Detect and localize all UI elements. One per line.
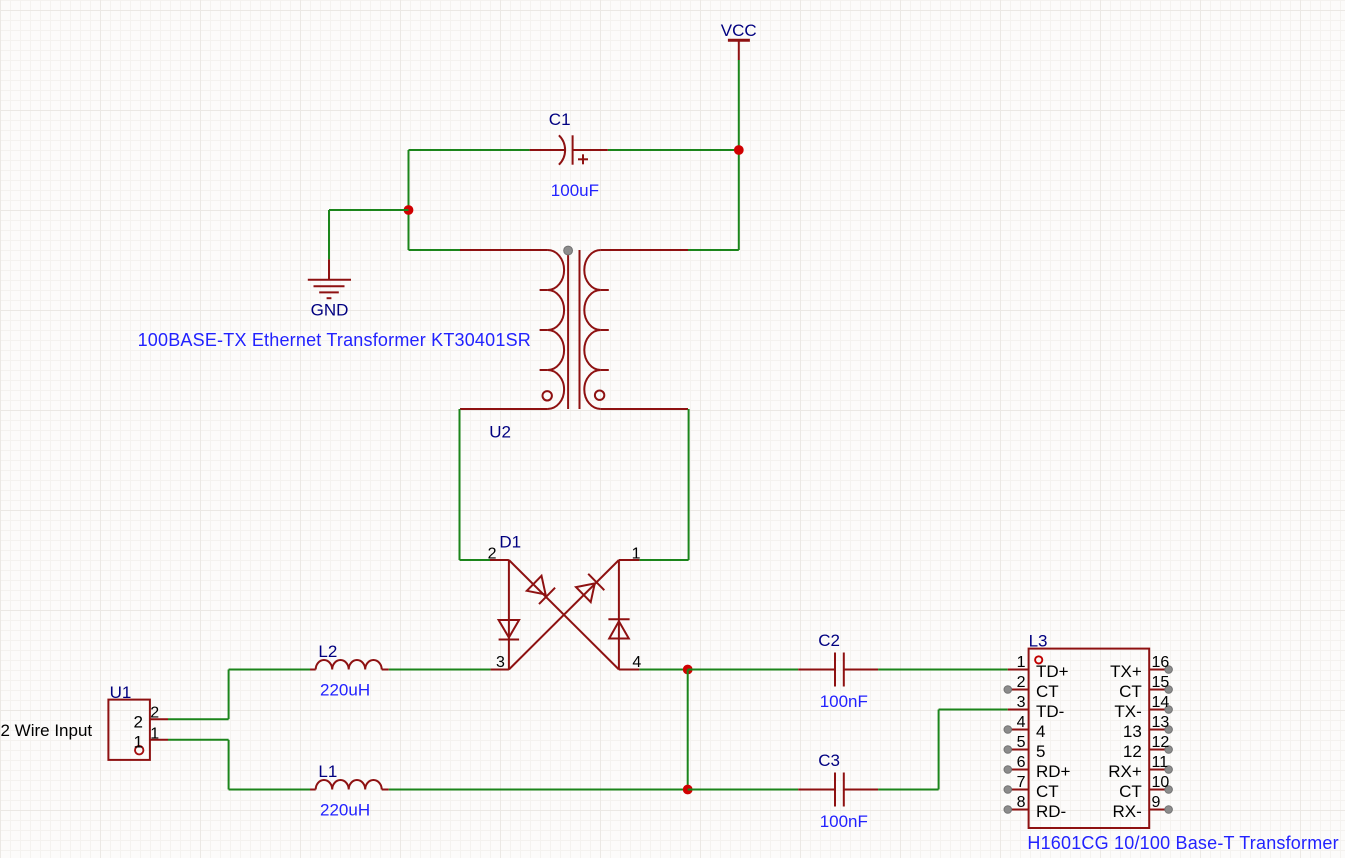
- svg-text:CT: CT: [1036, 682, 1059, 701]
- wire junction to C3: [688, 789, 799, 791]
- L3 pin 8 lead: [1008, 809, 1029, 811]
- capacitor C2: [798, 653, 878, 687]
- svg-text:12: 12: [1123, 742, 1142, 761]
- svg-text:12: 12: [1152, 734, 1170, 751]
- svg-text:GND: GND: [311, 301, 349, 320]
- svg-text:2: 2: [150, 705, 159, 722]
- wire vertical jog up: [938, 710, 940, 790]
- wire U1 pin1 vertical down: [228, 740, 230, 790]
- svg-text:10: 10: [1152, 774, 1170, 791]
- svg-text:5: 5: [1017, 734, 1026, 751]
- svg-text:4: 4: [1036, 722, 1045, 741]
- wire transformer top-left: [409, 249, 461, 251]
- svg-text:8: 8: [1017, 794, 1026, 811]
- svg-text:L2: L2: [318, 642, 337, 661]
- svg-text:CT: CT: [1119, 782, 1142, 801]
- wire U2 box left vertical: [459, 409, 461, 560]
- svg-text:16: 16: [1152, 654, 1170, 671]
- svg-text:6: 6: [1017, 754, 1026, 771]
- wire D1 pin4 to junction: [639, 669, 687, 671]
- wire VCC vertical down to transformer: [738, 60, 740, 250]
- inductor L2: [310, 660, 389, 670]
- svg-text:H1601CG 10/100 Base-T Transfor: H1601CG 10/100 Base-T Transformer: [1027, 833, 1338, 853]
- node junction row B: [683, 785, 693, 795]
- wire U1 pin1 horizontal: [168, 739, 229, 741]
- L3 pin 12 lead: [1149, 749, 1168, 751]
- svg-text:1: 1: [632, 545, 641, 562]
- svg-text:7: 7: [1017, 774, 1026, 791]
- wire transformer top-right: [688, 249, 739, 251]
- svg-text:220uH: 220uH: [320, 801, 370, 820]
- svg-text:100uF: 100uF: [551, 181, 599, 200]
- wire GND vertical: [328, 210, 330, 259]
- svg-text:5: 5: [1036, 742, 1045, 761]
- svg-text:4: 4: [632, 654, 641, 671]
- svg-text:1: 1: [134, 733, 143, 752]
- svg-text:13: 13: [1123, 722, 1142, 741]
- svg-text:100nF: 100nF: [820, 812, 868, 831]
- svg-text:100BASE-TX Ethernet Transforme: 100BASE-TX Ethernet Transformer KT30401S…: [138, 330, 531, 350]
- svg-text:VCC: VCC: [721, 21, 757, 40]
- L3 pin 16 lead: [1149, 669, 1168, 671]
- L3 pin 11 lead: [1149, 769, 1168, 771]
- svg-text:C3: C3: [818, 751, 840, 770]
- svg-text:TX-: TX-: [1114, 702, 1141, 721]
- L3 pin 13 lead: [1149, 729, 1168, 731]
- L3 pin 1 lead: [1008, 669, 1029, 671]
- wire C1 top horizontal left segment: [409, 149, 530, 151]
- svg-text:CT: CT: [1119, 682, 1142, 701]
- wire left vertical from C1 row to transformer row: [408, 150, 410, 250]
- wire U1 pin2 horizontal: [168, 718, 229, 720]
- svg-text:3: 3: [1017, 694, 1026, 711]
- svg-text:D1: D1: [499, 532, 521, 551]
- node junction row A: [683, 665, 693, 675]
- svg-text:100nF: 100nF: [820, 692, 868, 711]
- L3 pin 2 lead: [1008, 689, 1029, 691]
- svg-text:U2: U2: [489, 423, 511, 442]
- transformer U2: [460, 250, 688, 409]
- capacitor C3: [798, 773, 878, 807]
- svg-text:13: 13: [1152, 714, 1170, 731]
- L3 pin 7 lead: [1008, 789, 1029, 791]
- ground: [308, 259, 351, 319]
- svg-text:9: 9: [1152, 794, 1161, 811]
- wire U2 box right vertical: [688, 409, 690, 560]
- wire GND horizontal: [329, 209, 409, 211]
- wire U1 pin2 vertical up: [228, 670, 230, 720]
- L3 pin 14 lead: [1149, 709, 1168, 711]
- svg-text:TD+: TD+: [1036, 662, 1069, 681]
- svg-text:L3: L3: [1029, 631, 1048, 650]
- power flag VCC: [721, 21, 757, 60]
- pin dot unconnected center tap: [564, 246, 573, 255]
- wire C1 right to VCC junction: [608, 149, 739, 151]
- wire junction to C2: [688, 669, 799, 671]
- IC L3: [1029, 649, 1150, 828]
- wire U2 box bottom-right horizontal: [639, 559, 688, 561]
- wire row B to L1: [229, 789, 310, 791]
- svg-text:C1: C1: [549, 110, 571, 129]
- svg-text:RX+: RX+: [1108, 762, 1142, 781]
- wire to L3 pin3: [939, 709, 1008, 711]
- svg-text:CT: CT: [1036, 782, 1059, 801]
- svg-text:15: 15: [1152, 674, 1170, 691]
- svg-text:220uH: 220uH: [320, 681, 370, 700]
- svg-text:L1: L1: [318, 762, 337, 781]
- svg-text:C2: C2: [818, 631, 840, 650]
- node junction GND tee: [404, 205, 414, 215]
- L3 pin 4 lead: [1008, 729, 1029, 731]
- L3 pin 6 lead: [1008, 769, 1029, 771]
- wire row A to L2: [229, 669, 310, 671]
- svg-text:14: 14: [1152, 694, 1170, 711]
- svg-text:2: 2: [1017, 674, 1026, 691]
- L3 pin 10 lead: [1149, 789, 1168, 791]
- inductor L1: [310, 780, 389, 790]
- capacitor C1: [530, 135, 608, 164]
- svg-text:3: 3: [496, 654, 505, 671]
- svg-text:RD+: RD+: [1036, 762, 1071, 781]
- L3 pin 9 lead: [1149, 809, 1168, 811]
- svg-text:4: 4: [1017, 714, 1026, 731]
- diode bridge D1: [490, 560, 639, 670]
- wire L1 to junction row B: [389, 789, 688, 791]
- connector U1: [108, 700, 168, 760]
- wire U2 box bottom-left horizontal: [460, 559, 491, 561]
- svg-text:11: 11: [1152, 754, 1169, 771]
- svg-text:2: 2: [488, 545, 497, 562]
- svg-text:1: 1: [1017, 654, 1026, 671]
- node junction C1/VCC: [734, 145, 744, 155]
- wire vertical between junctions: [687, 670, 689, 790]
- svg-text:2: 2: [134, 713, 143, 732]
- wire L2 to D1 pin3: [389, 669, 491, 671]
- svg-text:U1: U1: [110, 683, 132, 702]
- svg-text:RD-: RD-: [1036, 802, 1066, 821]
- svg-text:RX-: RX-: [1113, 802, 1142, 821]
- wire C2 to L3 pin1: [878, 669, 1008, 671]
- svg-text:TX+: TX+: [1110, 662, 1142, 681]
- svg-text:1: 1: [150, 725, 159, 742]
- L3 pin 5 lead: [1008, 749, 1029, 751]
- svg-text:2 Wire Input: 2 Wire Input: [1, 721, 93, 740]
- svg-text:TD-: TD-: [1036, 702, 1064, 721]
- wire C3 right horizontal: [878, 789, 939, 791]
- L3 pin 3 lead: [1008, 709, 1029, 711]
- L3 pin 15 lead: [1149, 689, 1168, 691]
